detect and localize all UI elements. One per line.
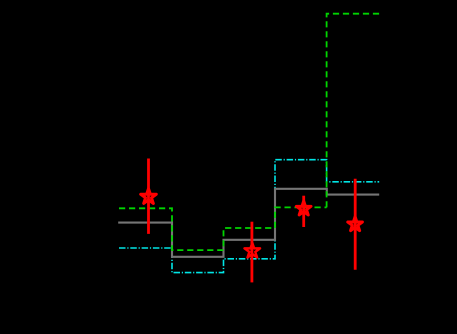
error bar 3 <box>302 196 305 227</box>
error bar 2 <box>250 222 253 283</box>
green dashed step histogram (lower bins) <box>119 207 327 250</box>
green dashed step histogram (tall last bin) <box>327 14 380 208</box>
gray solid step histogram <box>118 189 379 257</box>
star marker 2 <box>245 243 261 258</box>
error bar 1 <box>147 159 150 234</box>
error bar 4 <box>354 179 357 270</box>
cyan dash-dot step histogram <box>119 160 379 273</box>
star marker 1 <box>141 189 157 204</box>
star marker 3 <box>296 201 311 215</box>
star marker 4 <box>348 217 363 231</box>
